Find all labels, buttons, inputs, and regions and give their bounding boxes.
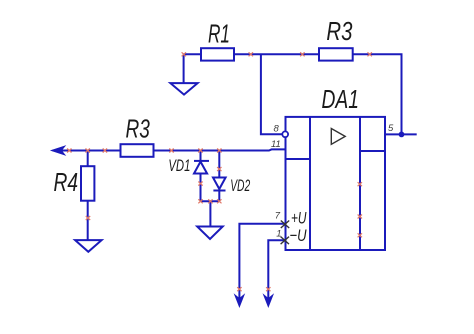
svg-text:VD1: VD1 [168, 156, 190, 175]
wire R4 top lead [87, 151, 89, 167]
svg-text:1: 1 [276, 228, 281, 239]
ground under R4 [75, 240, 102, 252]
resistor R3 top [319, 48, 353, 60]
op-amp pin 8 inverting bubble [282, 131, 288, 137]
svg-text:R1: R1 [208, 18, 230, 48]
wire node to pin 8 drop [261, 54, 282, 134]
svg-text:DA1: DA1 [322, 84, 360, 114]
resistor R3 left [121, 144, 154, 157]
no-connect X mark pin 7 [281, 221, 289, 229]
wire ground stem under R1 [183, 54, 185, 83]
wire pin 1 to down lead [268, 240, 285, 303]
svg-text:+U: +U [291, 209, 307, 228]
wire ground stem under diodes [209, 201, 211, 226]
svg-text:R4: R4 [54, 167, 79, 197]
arrow output left [52, 146, 65, 155]
resistor R1 [201, 48, 234, 60]
connection point markers [67, 52, 372, 291]
svg-text:7: 7 [275, 211, 281, 222]
diode VD2 [213, 178, 226, 191]
arrow down -U supply [264, 295, 273, 307]
svg-text:R3: R3 [326, 16, 352, 46]
wire R1 to R3 through node [234, 53, 319, 55]
ground under diodes [197, 227, 223, 240]
arrow down +U supply [235, 295, 244, 307]
wire pin 7 to down lead [239, 224, 285, 304]
svg-text:R3: R3 [126, 114, 151, 144]
svg-text:5: 5 [388, 123, 394, 134]
wire VD2 bottom lead [218, 191, 220, 201]
ground under R1 [170, 83, 197, 95]
diode VD1 [194, 161, 209, 174]
wire VD2 top lead [218, 151, 220, 178]
svg-text:8: 8 [274, 124, 280, 135]
wire VD1 top lead [200, 151, 202, 161]
wire VD1 bottom lead [200, 174, 202, 202]
wire output pin 5 to right [385, 133, 417, 135]
output junction dot node [399, 132, 405, 138]
op-amp DA1 amplifier triangle [331, 129, 345, 145]
svg-text:−U: −U [290, 226, 308, 245]
wire diode bottom bus [201, 200, 220, 202]
op-amp DA1 right column divider [360, 150, 385, 152]
wire R3 right to feedback corner down to output node [353, 54, 402, 134]
no-connect X mark pin 1 [281, 237, 289, 245]
op-amp DA1 inner right column line [359, 117, 361, 250]
wire mid net left of R3 [53, 150, 121, 152]
svg-text:11: 11 [271, 139, 281, 150]
op-amp DA1 inner left column line [309, 117, 311, 250]
wire R4 bottom lead to ground [87, 201, 89, 240]
op-amp DA1 left column divider [286, 158, 311, 160]
op-amp U1 DA1 body [286, 117, 386, 250]
resistor R4 [81, 166, 94, 201]
wire top-left segment to R1 [184, 53, 201, 55]
wire mid net R3 to pin 11 [154, 149, 286, 150]
svg-text:VD2: VD2 [230, 176, 250, 195]
